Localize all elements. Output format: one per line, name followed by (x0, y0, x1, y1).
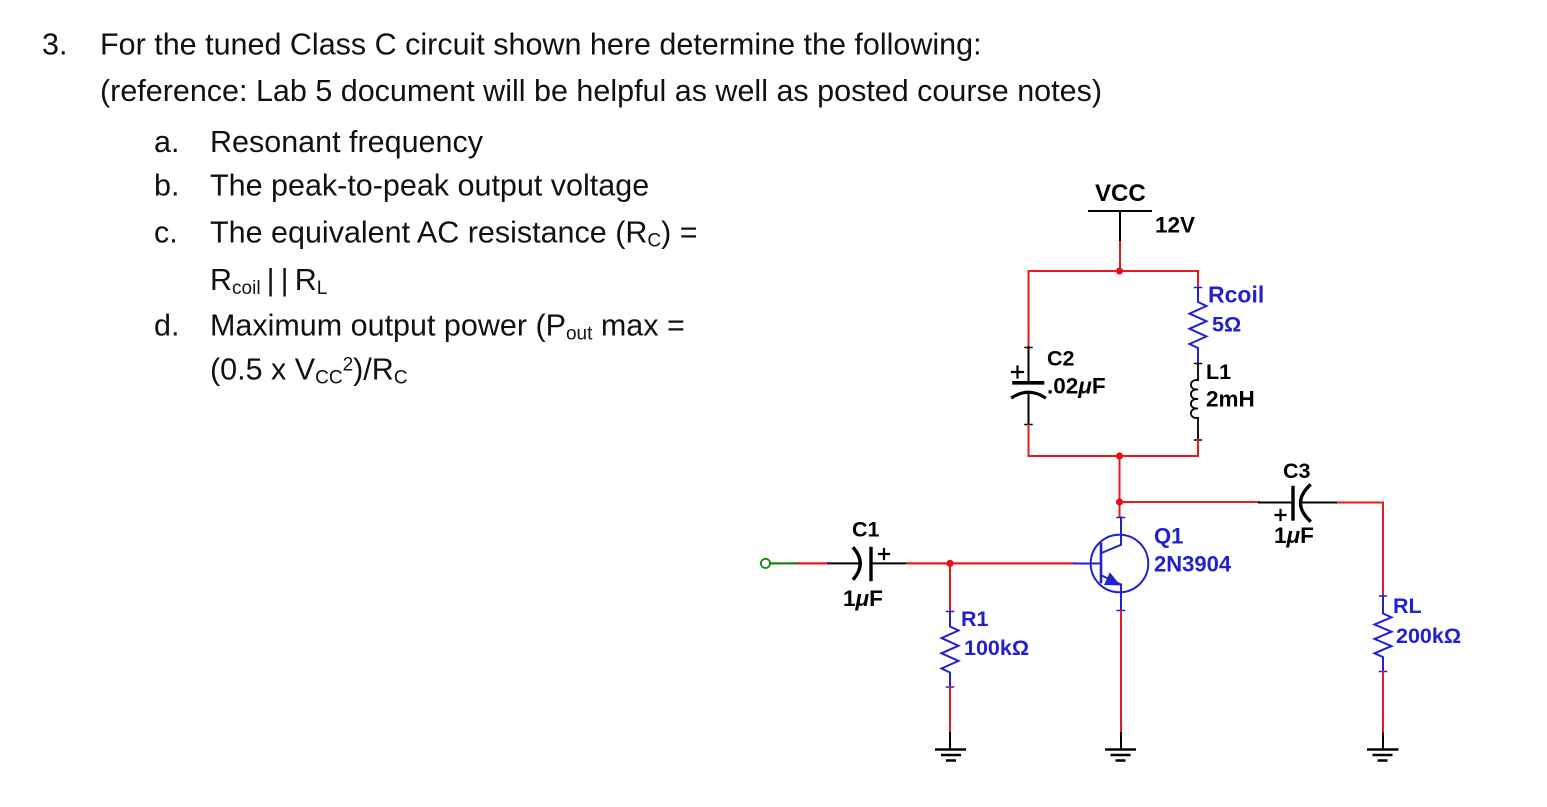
svg-text:L1: L1 (1206, 360, 1231, 384)
svg-text:c.: c. (154, 216, 178, 250)
svg-text:The peak-to-peak output voltag: The peak-to-peak output voltage (210, 169, 649, 203)
svg-text:a.: a. (154, 125, 179, 159)
svg-text:12V: 12V (1155, 213, 1195, 238)
svg-text:For the tuned Class C circuit: For the tuned Class C circuit shown here… (100, 28, 982, 62)
svg-text:Rcoil | | RL: Rcoil | | RL (210, 263, 327, 299)
svg-text:(0.5 x VCC2)/RC: (0.5 x VCC2)/RC (210, 353, 408, 389)
svg-text:100kΩ: 100kΩ (964, 636, 1029, 660)
svg-text:Resonant frequency: Resonant frequency (210, 125, 484, 159)
svg-text:1μF: 1μF (843, 586, 883, 611)
svg-text:The equivalent AC resistance (: The equivalent AC resistance (RC) = (210, 216, 698, 252)
svg-text:VCC: VCC (1095, 180, 1146, 207)
svg-text:200kΩ: 200kΩ (1396, 624, 1461, 648)
svg-text:b.: b. (154, 169, 179, 203)
svg-text:Q1: Q1 (1154, 524, 1183, 549)
svg-text:C3: C3 (1283, 459, 1311, 483)
svg-text:C2: C2 (1047, 347, 1075, 371)
svg-text:RL: RL (1393, 594, 1422, 618)
svg-text:d.: d. (154, 309, 179, 343)
svg-text:Rcoil: Rcoil (1208, 282, 1264, 308)
svg-text:Maximum output power (Pout max: Maximum output power (Pout max = (210, 309, 685, 345)
svg-text:R1: R1 (961, 607, 989, 631)
svg-text:C1: C1 (852, 518, 880, 542)
svg-text:(reference: Lab 5 document wil: (reference: Lab 5 document will be helpf… (100, 74, 1102, 108)
svg-text:1μF: 1μF (1274, 523, 1314, 548)
svg-text:.02μF: .02μF (1047, 374, 1106, 399)
svg-text:3.: 3. (42, 28, 67, 62)
svg-text:2mH: 2mH (1206, 387, 1255, 412)
svg-text:2N3904: 2N3904 (1154, 552, 1232, 577)
svg-text:5Ω: 5Ω (1212, 313, 1241, 337)
